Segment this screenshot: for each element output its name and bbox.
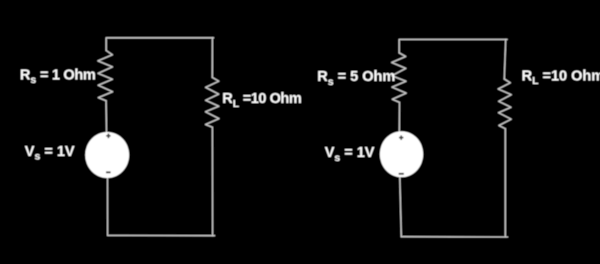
wire: right circuit right vertical lower	[504, 129, 506, 237]
resistor R_s left circuit (1 Ohm) zigzag	[98, 51, 113, 101]
minus sign inside left source	[106, 171, 111, 173]
wire: right source bottom to bottom-left corner	[400, 177, 402, 237]
svg-text:Vs = 1V: Vs = 1V	[325, 145, 375, 164]
wire: left circuit bottom wire	[108, 234, 215, 236]
plus sign inside right source	[399, 135, 403, 140]
resistor R_s right circuit (5 Ohm) zigzag	[392, 53, 407, 103]
resistor R_L right circuit (10 Ohm) zigzag	[498, 79, 511, 129]
wire: left circuit top wire with corners	[106, 38, 213, 51]
plus sign inside left source	[106, 134, 110, 139]
wire: Rs bottom to source top	[105, 101, 107, 133]
wire: left circuit right vertical lower	[211, 127, 213, 235]
wire: left circuit right vertical upper	[211, 38, 213, 78]
wire: right circuit top wire with corners	[399, 39, 507, 53]
wire: right Rs bottom to source top	[398, 102, 400, 131]
voltage source V_s left circuit	[85, 132, 129, 178]
resistor R_L left circuit (10 Ohm) zigzag	[206, 77, 220, 127]
wire: right circuit bottom wire	[401, 236, 507, 238]
voltage source V_s right circuit	[380, 131, 423, 177]
svg-text:Vs = 1V: Vs = 1V	[25, 144, 75, 163]
wire: right circuit right vertical upper	[504, 39, 505, 79]
minus sign inside right source	[399, 173, 404, 175]
wire: source bottom to bottom-left corner	[107, 177, 109, 235]
